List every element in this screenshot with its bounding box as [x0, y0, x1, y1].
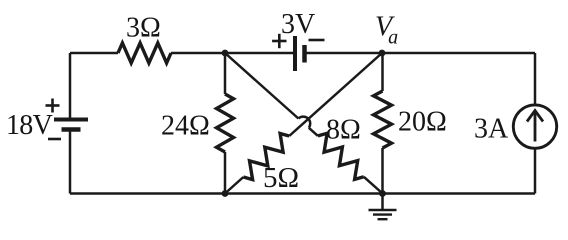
svg-text:3Ω: 3Ω — [126, 13, 161, 44]
svg-text:8Ω: 8Ω — [326, 115, 361, 146]
svg-text:3V: 3V — [281, 9, 315, 40]
svg-text:18V: 18V — [6, 110, 53, 141]
svg-text:20Ω: 20Ω — [398, 107, 447, 138]
svg-text:24Ω: 24Ω — [161, 111, 210, 142]
svg-text:3A: 3A — [474, 114, 509, 145]
svg-text:5Ω: 5Ω — [263, 162, 299, 194]
